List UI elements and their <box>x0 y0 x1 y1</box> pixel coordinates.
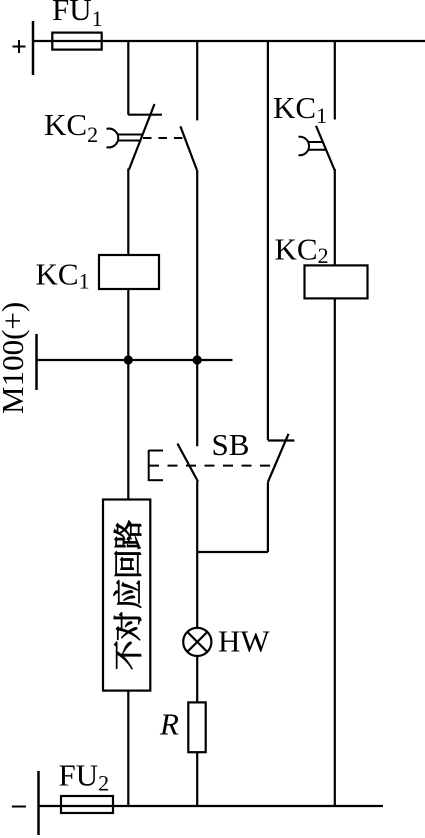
svg-text:M100(+): M100(+) <box>0 302 30 414</box>
svg-text:R: R <box>159 707 179 742</box>
svg-text:SB: SB <box>212 427 250 462</box>
svg-text:HW: HW <box>218 624 270 659</box>
